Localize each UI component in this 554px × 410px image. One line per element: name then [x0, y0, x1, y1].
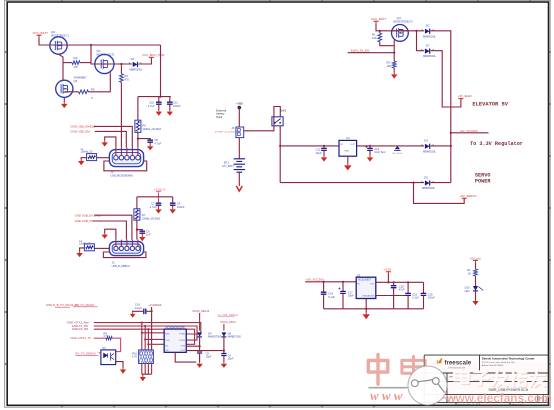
svg-text:MBR0520L: MBR0520L: [423, 54, 437, 58]
svg-text:4.7uF: 4.7uF: [150, 205, 157, 209]
svg-text:1uF: 1uF: [146, 233, 151, 237]
capacitor C9: [137, 230, 142, 232]
svg-text:100nF: 100nF: [428, 297, 436, 300]
wire: [94, 126, 133, 147]
regulator U4: [339, 140, 357, 156]
LED D8: [473, 286, 478, 291]
wire shield loop 2: [103, 252, 145, 258]
wire: [136, 197, 138, 209]
svg-text:+5V_SERVO: +5V_SERVO: [460, 194, 478, 198]
wire: [186, 345, 199, 347]
wire: [146, 310, 152, 312]
svg-text:Q4: Q4: [397, 16, 401, 20]
wire: [475, 291, 477, 299]
wire: [431, 145, 451, 147]
transistor Q1: [95, 54, 114, 73]
ground: [149, 145, 151, 147]
svg-text:RX_TX_DEBUG: RX_TX_DEBUG: [75, 351, 96, 355]
svg-text:10uF Tant: 10uF Tant: [374, 151, 385, 154]
ground: [80, 248, 85, 252]
svg-text:10uF: 10uF: [316, 151, 322, 155]
switch SW1: [272, 117, 283, 126]
ground: [393, 68, 395, 73]
svg-text:+3.3VRAIL: +3.3VRAIL: [148, 303, 162, 307]
svg-text:D7: D7: [426, 44, 430, 48]
fuse F1: [135, 120, 141, 132]
resistor R8: [94, 337, 106, 339]
svg-text:VD: VD: [165, 345, 168, 347]
off-page arrow: [236, 186, 242, 191]
wire: [475, 263, 477, 270]
wire: [392, 30, 425, 32]
svg-text:100nF: 100nF: [173, 104, 181, 108]
svg-text:TXD: TXD: [165, 340, 170, 342]
svg-text:MMBD7000: MMBD7000: [208, 336, 222, 339]
wire: [238, 138, 240, 159]
wire switched rail down: [279, 126, 281, 183]
svg-text:VCC_BATT: VCC_BATT: [33, 31, 49, 35]
svg-text:100Ma_2D: 100Ma_2D: [81, 151, 93, 154]
wire: [93, 221, 127, 240]
wire: [145, 338, 164, 340]
svg-text:OUT: OUT: [370, 283, 375, 285]
svg-text:USB_MC9S08JM60: USB_MC9S08JM60: [111, 175, 134, 178]
wire to 3.3V regulator: [451, 132, 489, 134]
wire: [64, 91, 78, 93]
wire cap rail 2: [137, 196, 173, 198]
ground: [104, 141, 106, 143]
fuse F2: [134, 209, 140, 220]
svg-text:D10: D10: [465, 286, 470, 290]
svg-text:Q2: Q2: [51, 30, 55, 34]
svg-text:4.7K: 4.7K: [103, 335, 108, 338]
capacitor C18: [393, 282, 395, 285]
wire: [380, 42, 394, 46]
wire: [148, 343, 164, 345]
svg-text:PTB1: PTB1: [180, 340, 186, 342]
svg-text:4.7uF: 4.7uF: [154, 141, 161, 145]
power symbol +5V_SERVO: [462, 198, 467, 200]
ground: [133, 311, 144, 312]
svg-text:15pF: 15pF: [206, 355, 212, 358]
svg-text:VCC_MCU_POR: VCC_MCU_POR: [142, 53, 164, 57]
ground: [63, 98, 65, 103]
svg-text:+5V_VCC3V3: +5V_VCC3V3: [460, 129, 478, 133]
svg-text:ELEVATOR 5V: ELEVATOR 5V: [472, 101, 508, 107]
diode D3: [425, 144, 430, 149]
svg-text:10K: 10K: [372, 36, 377, 40]
wire: [109, 73, 111, 92]
svg-text:+3.3V: +3.3V: [383, 268, 391, 272]
svg-text:MC9S08QG8CPB: MC9S08QG8CPB: [165, 326, 185, 329]
regulator U5: [356, 277, 376, 298]
svg-text:MMBD7000: MMBD7000: [228, 336, 242, 339]
title block: [424, 355, 549, 405]
svg-text:GND +3TX4_TX: GND +3TX4_TX: [71, 336, 92, 340]
watermark circle logo: [408, 366, 447, 405]
svg-text:U5: U5: [357, 273, 361, 277]
svg-text:GND USB_DM: GND USB_DM: [70, 130, 90, 134]
wire: [417, 31, 425, 51]
wire: [199, 313, 201, 331]
svg-text:D2: D2: [426, 24, 430, 28]
svg-text:D3: D3: [424, 139, 428, 143]
svg-text:+5VBUS: +5VBUS: [154, 187, 166, 191]
svg-text:MBR0520L: MBR0520L: [423, 34, 437, 38]
svg-text:MBR0520L: MBR0520L: [423, 149, 437, 153]
capacitor C4: [172, 197, 174, 203]
ferrite L2: [94, 247, 109, 249]
svg-text:USB_B_DEBUG: USB_B_DEBUG: [112, 265, 131, 268]
diode D7: [425, 49, 430, 54]
ground: [142, 373, 152, 375]
svg-text:47K: 47K: [74, 65, 79, 69]
svg-text:www.elecfans.com: www.elecfans.com: [445, 391, 551, 405]
svg-text:VCC2_MCU4: VCC2_MCU4: [192, 309, 209, 313]
svg-text:4.7uF: 4.7uF: [148, 104, 155, 108]
svg-text:U3: U3: [102, 346, 106, 350]
wire: [348, 52, 395, 54]
svg-text:0.1uF: 0.1uF: [412, 297, 419, 300]
svg-text:OUT: OUT: [350, 144, 355, 146]
wire: [141, 323, 143, 350]
wire: [94, 215, 132, 239]
battery BT1: [234, 159, 245, 172]
svg-text:BT1: BT1: [224, 160, 229, 164]
svg-text:1K: 1K: [468, 271, 471, 275]
wire: [158, 194, 160, 204]
wire +3.3V vertical: [151, 307, 153, 350]
wire C10/C11 rail: [138, 96, 171, 98]
IC U2: [164, 329, 186, 352]
resistor R9: [474, 269, 478, 276]
capacitor C11: [169, 97, 171, 103]
ground: [169, 110, 171, 112]
wire: [94, 329, 195, 344]
resistor R5: [392, 61, 396, 68]
wire: [186, 350, 224, 352]
svg-text:RXD: RXD: [165, 334, 170, 336]
wire: [223, 324, 225, 331]
resistor R4: [120, 64, 122, 74]
svg-text:12V_BATT: 12V_BATT: [222, 165, 235, 168]
wire: [305, 281, 356, 283]
wire shield loop: [104, 161, 147, 171]
ground: [141, 235, 143, 237]
ground: [158, 110, 160, 112]
wire: [62, 63, 64, 81]
wire gate vertical: [393, 40, 395, 61]
transistor Q2: [50, 37, 67, 54]
capacitor C16: [323, 282, 325, 292]
ground: [323, 156, 325, 158]
svg-text:+5V_TO_DRAIN: +5V_TO_DRAIN: [74, 303, 95, 307]
svg-text:GD: GD: [165, 350, 169, 352]
svg-text:100Ma_2D 0603: 100Ma_2D 0603: [142, 128, 161, 131]
svg-text:GND: GND: [344, 150, 349, 152]
svg-text:Q1: Q1: [97, 49, 101, 53]
optocoupler U3: [101, 350, 116, 365]
svg-text:ELEV_5V_EN: ELEV_5V_EN: [351, 48, 369, 52]
wire: [136, 220, 138, 239]
capacitor C5: [197, 351, 202, 353]
svg-text:Detroit Automotive Technology: Detroit Automotive Technology Center: [482, 356, 536, 360]
svg-text:MH_Wafer: MH_Wafer: [392, 152, 403, 155]
svg-text:J2: J2: [112, 260, 115, 264]
wire: [137, 97, 139, 121]
wire: [147, 364, 149, 375]
wire servo rail: [280, 182, 424, 184]
svg-text:VCC_BATT: VCC_BATT: [371, 17, 387, 21]
wire: [91, 45, 114, 64]
ground: [122, 368, 124, 370]
svg-text:U4: U4: [346, 136, 350, 140]
svg-text:10uF: 10uF: [348, 294, 354, 298]
wire: [94, 326, 197, 340]
connector J6: [236, 127, 244, 138]
watermark ghost text dianzifashaoyou: [455, 371, 469, 384]
svg-text:DO NOT use w/ batt pack: DO NOT use w/ batt pack: [215, 131, 241, 134]
diode D4: [197, 332, 202, 336]
diode D2: [425, 29, 430, 34]
wire: [450, 146, 452, 183]
resistor network RN1: [139, 350, 154, 364]
svg-text:MGSF1P02ELT1: MGSF1P02ELT1: [393, 20, 413, 24]
svg-text:SW1: SW1: [280, 109, 287, 113]
svg-text:R4: R4: [124, 74, 128, 78]
wire: [116, 362, 123, 368]
wire: [39, 37, 67, 45]
wire: [431, 182, 451, 184]
transistor Q3: [56, 80, 73, 97]
capacitor C6: [221, 354, 226, 356]
watermark underline: [369, 387, 408, 389]
svg-text:GND USB_SHIELD: GND USB_SHIELD: [70, 125, 95, 129]
wire: [138, 58, 151, 64]
power symbol +5V_ELEV: [458, 99, 463, 101]
wire: [244, 107, 281, 131]
ground: [199, 362, 201, 364]
svg-text:GND/ADJUST: GND/ADJUST: [362, 294, 377, 297]
svg-text:MBR0520L: MBR0520L: [130, 68, 144, 72]
svg-text:100nF: 100nF: [177, 205, 185, 209]
svg-text:VCC2_MCU: VCC2_MCU: [220, 320, 235, 324]
wire +5V_SERVO tap: [414, 183, 465, 204]
ferrite L1: [97, 157, 110, 159]
svg-text:R6: R6: [142, 123, 146, 127]
wire: [160, 45, 162, 97]
svg-text:D5: D5: [424, 175, 428, 179]
svg-text:PTB0: PTB0: [180, 334, 186, 336]
svg-text:MGSF1N02LT1: MGSF1N02LT1: [97, 53, 116, 57]
svg-text:47uF: 47uF: [399, 287, 405, 291]
diode D5: [425, 180, 430, 185]
svg-text:MBR0520L: MBR0520L: [422, 186, 436, 190]
capacitor C15: [407, 282, 409, 293]
wire: [142, 332, 164, 334]
svg-text:J2_USB_DEBUG: J2_USB_DEBUG: [218, 313, 238, 317]
wire: [223, 337, 225, 353]
ground: [347, 156, 349, 164]
svg-text:15pF: 15pF: [228, 357, 234, 360]
wire: [99, 352, 101, 354]
wire bottom rail: [324, 308, 424, 310]
svg-text:4.7K: 4.7K: [132, 355, 137, 358]
svg-text:100Ma_2D: 100Ma_2D: [79, 242, 91, 245]
wire: [475, 276, 477, 286]
capacitor C19: [423, 282, 425, 293]
ground: [104, 233, 106, 235]
svg-text:GND USB_5V: GND USB_5V: [75, 219, 93, 223]
wire: [199, 337, 201, 351]
watermark haze: [432, 362, 550, 407]
ground: [81, 158, 86, 160]
svg-text:www: www: [370, 388, 406, 403]
svg-text:Pack: Pack: [216, 115, 223, 119]
capacitor C17: [342, 282, 344, 292]
capacitor C13: [369, 146, 371, 149]
wire: [365, 299, 367, 309]
wire: [95, 63, 132, 65]
resistor R2: [63, 62, 72, 64]
svg-text:+5V_ELEV: +5V_ELEV: [458, 94, 472, 98]
svg-text:R2: R2: [74, 56, 78, 60]
wire: [144, 326, 146, 350]
svg-text:+VBD: +VBD: [236, 102, 243, 106]
svg-text:10K: 10K: [386, 64, 391, 68]
wire: [67, 44, 160, 46]
wire output rail: [376, 281, 424, 283]
svg-text:R5: R5: [386, 60, 390, 64]
wire: [376, 23, 408, 30]
wire: [151, 364, 153, 375]
ground: [365, 309, 367, 313]
wire: [238, 172, 240, 186]
capacitor C12: [323, 146, 325, 149]
wire: [238, 108, 240, 128]
resistor R3: [79, 90, 89, 94]
svg-text:0.1uF: 0.1uF: [328, 295, 335, 299]
svg-text:Q3: Q3: [74, 79, 78, 83]
diode D9: [222, 332, 227, 336]
ground: [158, 208, 160, 210]
wire mid rail: [280, 145, 339, 147]
wire: [105, 229, 116, 239]
connector J3 USB: [109, 150, 143, 167]
ground: [172, 208, 174, 210]
svg-text:To 3.3V Regulator: To 3.3V Regulator: [470, 141, 523, 147]
power symbol VCC_MCU_POR: [149, 57, 154, 59]
wire: [112, 338, 120, 351]
capacitor C2: [156, 203, 162, 205]
svg-text:R7: R7: [142, 213, 146, 217]
test point TP1: [395, 146, 400, 149]
diode D1: [133, 62, 138, 67]
capacitor C8: [138, 139, 150, 141]
wire: [144, 364, 146, 375]
svg-text:VSS: VSS: [181, 345, 186, 347]
wire ADJ: [376, 295, 408, 297]
wire: [105, 137, 116, 148]
watermark char zhong: [368, 354, 388, 384]
svg-text:475: 475: [124, 77, 129, 81]
svg-text:J6: J6: [231, 126, 234, 130]
resistor R1: [379, 31, 381, 33]
svg-text:+5V_prn: +5V_prn: [470, 256, 481, 260]
svg-text:+5V_VCC3V3: +5V_VCC3V3: [306, 278, 324, 282]
svg-text:POWER: POWER: [475, 178, 491, 184]
ground: [475, 299, 477, 301]
wire: [431, 31, 451, 146]
svg-text:LED: LED: [465, 290, 470, 293]
wire: [431, 51, 461, 107]
svg-text:100Ma_2D 0603: 100Ma_2D 0603: [142, 218, 161, 221]
wire: [95, 131, 127, 147]
svg-text:R3: R3: [91, 87, 95, 91]
freescale logo: [437, 358, 443, 364]
svg-text:0.1uF: 0.1uF: [135, 306, 142, 310]
wire: [94, 323, 201, 334]
wire: [137, 132, 139, 147]
svg-text:OUT: OUT: [180, 350, 185, 352]
connector J2 USB debug: [109, 242, 143, 256]
transistor Q4: [392, 25, 409, 42]
svg-text:GND RX_DN: GND RX_DN: [72, 327, 88, 331]
wire: [59, 54, 64, 62]
ground: [223, 362, 225, 364]
ground: [369, 156, 371, 158]
svg-text:D1: D1: [131, 57, 135, 61]
watermark char dian (left): [402, 356, 425, 377]
wire: [387, 274, 389, 282]
wire: [141, 364, 143, 375]
svg-text:R1: R1: [372, 32, 376, 36]
svg-text:MGSF1P02LT1: MGSF1P02LT1: [51, 34, 69, 38]
capacitor C10: [158, 97, 160, 103]
wire: [175, 352, 196, 362]
wire: [147, 329, 149, 350]
svg-text:MC33269DT: MC33269DT: [358, 280, 372, 282]
